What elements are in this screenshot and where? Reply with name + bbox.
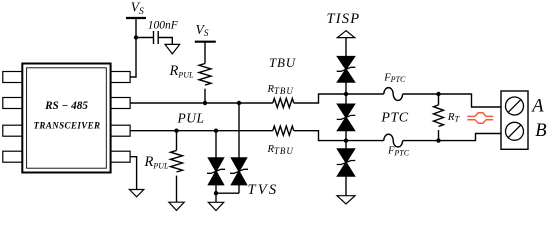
svg-text:RTBU: RTBU [267,84,294,96]
wire TISP to ground [345,176,347,196]
terminal A screw [506,97,524,115]
junction RPUL2/line2 [174,129,178,133]
resistor RPUL1 (pull-up) [199,64,211,86]
terminal block J1 [501,91,528,149]
svg-text:TISP: TISP [327,11,361,27]
wire line 1 from pin 7 [130,102,273,104]
wire TVS right to ground node [238,185,240,194]
wire TVS bottom joining [216,192,239,194]
wire capacitor to ground [158,38,172,45]
svg-text:TRANSCEIVER: TRANSCEIVER [34,121,101,131]
svg-text:PUL: PUL [177,110,205,125]
wire line 2 to step [294,131,384,141]
ground (RPUL2) [169,202,184,210]
ground (transceiver) [129,190,143,197]
svg-text:TBU: TBU [269,55,297,70]
TISP thyristor 2 [337,104,356,130]
ground (capacitor) [165,44,180,54]
TISP thyristor 3 [337,149,356,176]
supply VS rail 1 bar [126,17,146,19]
wire line 2 from pin 6 [130,130,273,132]
junction TISP/line2 [344,138,348,142]
svg-text:B: B [535,121,546,141]
wire capacitor branch [136,37,154,39]
fuse FPTC2 [384,134,403,147]
svg-text:RS − 485: RS − 485 [44,100,88,112]
resistor RTBU2 [273,126,294,135]
wire RT bottom [438,130,440,141]
wire RPUL2 from line 2 [176,131,178,151]
pin 2 left [3,98,23,109]
pin 7 right (line A) [111,98,131,109]
pin 1 left [3,72,23,83]
svg-text:A: A [530,97,544,117]
wire TVS left to ground node [215,185,217,194]
junction TISP/line1 [344,92,348,96]
TISP thyristor 1 [337,57,356,82]
wire RT top [438,94,440,105]
capacitor C1 100nF plates [154,31,159,44]
terminal B screw [506,122,524,140]
junction RPUL1/line1 [203,101,207,105]
wire line 1 to terminal A [403,94,501,107]
ground (TVS) [208,202,223,210]
svg-text:RT: RT [447,111,461,124]
wire VS2 to resistor RPUL1 [204,42,206,64]
svg-text:TVS: TVS [248,182,279,198]
pin 5 right (GND) [111,151,131,162]
wire TISP 1-2 [345,82,347,104]
pin 6 right (line B) [111,125,131,136]
resistor RTBU1 [273,98,294,107]
TISP open terminal arrow [337,31,354,38]
wire TISP 2-3 [345,131,347,149]
junction RT/line1 [436,92,440,96]
junction TVS left/line2 [214,129,218,133]
wire pin 5 to ground [130,157,137,190]
resistor RPUL2 (pull-down) [171,150,183,172]
TVS diode D2 (right, bidirectional) [230,158,248,185]
wire line 1 to step [294,94,384,103]
TVS diode D1 (left, bidirectional) [207,158,225,185]
svg-text:PTC: PTC [380,111,408,126]
junction TVS right/line1 [237,101,241,105]
wire TVS right column from line 1 [238,103,240,158]
wire TVS left column from line 2 [215,131,217,158]
junction RT/line2 [436,138,440,142]
svg-text:100nF: 100nF [148,20,179,32]
svg-text:RTBU: RTBU [267,144,294,156]
wire RPUL2 to ground [176,176,178,203]
wire TISP top [345,38,347,57]
junction VS1/cap [134,35,138,39]
junction TVS ground node [214,191,218,195]
supply VS rail 2 bar [195,41,216,43]
wire VS1 to pin 8 [130,18,136,77]
pin 3 left [3,125,23,136]
pin 4 left [3,151,23,162]
fuse FPTC1 [384,88,403,101]
pin 8 right (VCC) [111,72,131,83]
IC U1 RS-485 transceiver body [22,64,110,173]
twisted pair symbol (orange) [467,113,493,124]
wire TVS node to ground [215,193,217,202]
wire line 2 to terminal B [403,134,501,141]
ground (TISP) [337,196,355,204]
resistor RT termination [434,105,444,127]
wire RPUL1 to line 1 [204,89,206,103]
